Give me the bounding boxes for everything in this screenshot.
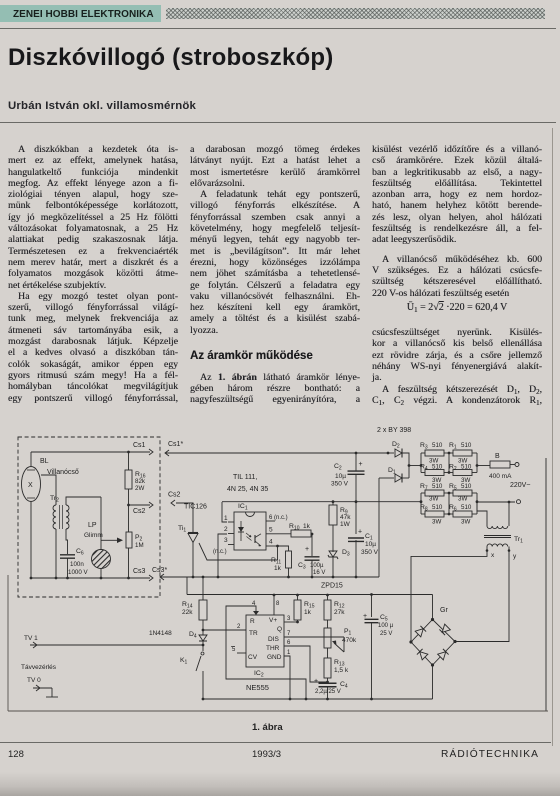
svg-text:8: 8	[276, 601, 280, 607]
svg-text:510: 510	[461, 442, 472, 449]
svg-text:C3: C3	[298, 562, 306, 571]
svg-text:Cs2: Cs2	[168, 492, 181, 499]
svg-text:1k: 1k	[304, 609, 312, 616]
svg-text:47k: 47k	[340, 514, 351, 521]
svg-text:7: 7	[287, 631, 291, 637]
svg-text:TIL 111,: TIL 111,	[233, 474, 257, 481]
svg-text:TR: TR	[249, 630, 258, 637]
svg-text:5: 5	[232, 647, 236, 653]
svg-text:Glimm: Glimm	[84, 532, 103, 539]
svg-text:D3: D3	[342, 549, 350, 558]
svg-text:Cs3: Cs3	[133, 568, 146, 575]
svg-text:D2: D2	[392, 441, 400, 450]
svg-text:220V~: 220V~	[510, 482, 530, 489]
svg-text:R6: R6	[449, 504, 457, 513]
svg-text:2: 2	[237, 624, 241, 630]
svg-text:350 V: 350 V	[331, 481, 349, 488]
svg-text:Ti1: Ti1	[178, 525, 186, 534]
svg-text:1W: 1W	[340, 521, 351, 528]
svg-text:16 V: 16 V	[313, 570, 325, 576]
svg-text:TV 0: TV 0	[27, 677, 41, 684]
svg-text:2W: 2W	[135, 485, 144, 492]
svg-text:25 V: 25 V	[380, 631, 392, 637]
svg-text:Gr: Gr	[440, 607, 448, 614]
svg-text:TV 1: TV 1	[24, 635, 38, 642]
svg-text:1000 V: 1000 V	[68, 569, 88, 576]
svg-text:Távvezérlés: Távvezérlés	[21, 664, 57, 671]
svg-text:4N 25, 4N 35: 4N 25, 4N 35	[227, 486, 268, 493]
svg-text:5: 5	[269, 527, 273, 534]
svg-text:+: +	[305, 546, 309, 553]
svg-text:ZPD15: ZPD15	[321, 583, 343, 590]
svg-text:100n: 100n	[70, 561, 84, 568]
svg-text:P1: P1	[344, 628, 352, 637]
svg-text:BL: BL	[40, 458, 49, 465]
svg-text:100µ: 100µ	[310, 563, 324, 569]
svg-text:100 µ: 100 µ	[378, 623, 394, 629]
svg-text:6: 6	[287, 640, 291, 646]
svg-text:Cs1: Cs1	[133, 442, 146, 449]
svg-text:R5: R5	[449, 483, 457, 492]
svg-text:1: 1	[287, 650, 291, 656]
svg-text:3: 3	[224, 537, 228, 544]
svg-text:400 mA: 400 mA	[489, 473, 512, 480]
svg-text:1,5 k: 1,5 k	[334, 667, 349, 674]
svg-text:+: +	[363, 613, 367, 620]
svg-text:x: x	[491, 552, 495, 559]
svg-text:1k: 1k	[274, 565, 282, 572]
svg-text:D4: D4	[189, 631, 197, 640]
svg-text:V+: V+	[269, 617, 277, 624]
svg-text:2: 2	[224, 526, 228, 533]
svg-text:+: +	[359, 461, 363, 468]
svg-text:3W: 3W	[458, 496, 467, 503]
svg-text:DIS: DIS	[268, 636, 280, 643]
svg-text:R7: R7	[420, 483, 428, 492]
svg-text:C6: C6	[76, 548, 84, 557]
svg-text:+: +	[314, 678, 318, 685]
svg-text:Cs1*: Cs1*	[168, 441, 183, 448]
svg-text:3W: 3W	[461, 519, 470, 526]
svg-text:510: 510	[461, 504, 472, 511]
svg-text:510: 510	[432, 483, 443, 490]
svg-text:K1: K1	[180, 657, 188, 666]
svg-text:TIC126: TIC126	[184, 504, 207, 511]
svg-text:22k: 22k	[182, 609, 193, 616]
svg-text:NE555: NE555	[246, 683, 269, 692]
svg-text:2,2µ/25 V: 2,2µ/25 V	[315, 689, 341, 695]
svg-text:510: 510	[432, 464, 443, 471]
svg-text:1N4148: 1N4148	[149, 630, 172, 637]
svg-text:LP: LP	[88, 522, 97, 529]
svg-text:Tr1: Tr1	[514, 536, 523, 545]
svg-text:Q: Q	[277, 626, 282, 633]
svg-text:350 V: 350 V	[361, 549, 379, 556]
svg-text:C2: C2	[334, 463, 342, 472]
svg-text:510: 510	[432, 442, 443, 449]
svg-text:Cs3*: Cs3*	[152, 567, 167, 574]
svg-text:R: R	[250, 618, 255, 625]
svg-text:4: 4	[269, 539, 273, 546]
svg-text:IC1: IC1	[238, 503, 248, 512]
svg-text:THR: THR	[266, 645, 280, 652]
svg-text:3W: 3W	[432, 519, 441, 526]
svg-text:Cs2: Cs2	[133, 508, 146, 515]
svg-text:C5: C5	[380, 614, 388, 623]
svg-text:510: 510	[461, 464, 472, 471]
svg-text:6 (n.c.): 6 (n.c.)	[269, 515, 288, 521]
svg-text:y: y	[513, 553, 517, 560]
svg-text:X: X	[28, 482, 33, 489]
svg-text:2 x BY 398: 2 x BY 398	[377, 427, 411, 434]
svg-text:R3: R3	[420, 442, 428, 451]
svg-text:1k: 1k	[303, 523, 311, 530]
svg-text:C4: C4	[340, 681, 348, 690]
svg-text:82k: 82k	[135, 478, 146, 485]
svg-text:GND: GND	[267, 654, 282, 661]
svg-text:3W: 3W	[429, 496, 438, 503]
svg-text:CV: CV	[248, 654, 258, 661]
svg-text:510: 510	[461, 483, 472, 490]
svg-text:510: 510	[432, 504, 443, 511]
svg-text:R2: R2	[449, 464, 457, 473]
svg-text:R1: R1	[449, 442, 457, 451]
svg-text:27k: 27k	[334, 609, 345, 616]
svg-text:IC2: IC2	[254, 670, 264, 679]
svg-text:1M: 1M	[135, 542, 144, 549]
svg-text:B: B	[495, 453, 500, 460]
svg-text:Tr2: Tr2	[50, 495, 59, 504]
svg-text:+: +	[358, 529, 362, 536]
svg-text:(n.c.): (n.c.)	[213, 549, 227, 555]
svg-text:3: 3	[287, 616, 291, 622]
svg-text:10µ: 10µ	[335, 473, 346, 480]
svg-text:10µ: 10µ	[365, 541, 376, 548]
svg-text:1: 1	[224, 515, 228, 522]
